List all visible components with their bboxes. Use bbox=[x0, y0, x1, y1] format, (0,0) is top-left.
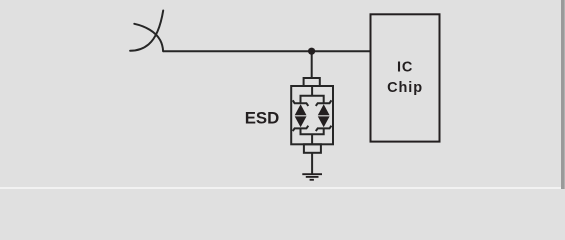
bottom page edge strip bbox=[0, 187, 561, 189]
wire: ESD device to ground bbox=[311, 153, 313, 174]
zener bar bottom of right TVS pair bbox=[316, 126, 332, 131]
ESD device top terminal pad bbox=[304, 78, 320, 86]
IC chip box bbox=[371, 14, 440, 141]
connector arc (pin curve into wire) bbox=[134, 24, 163, 51]
zener bar bottom of left TVS pair bbox=[293, 126, 309, 131]
diode D1a triangle (left pair, pointing up) bbox=[295, 104, 307, 115]
zener bar top of right TVS pair bbox=[316, 100, 332, 106]
ESD device bottom terminal pad bbox=[304, 144, 321, 153]
diode D2b triangle (right pair, pointing down) bbox=[318, 116, 330, 127]
right page border bbox=[561, 0, 564, 189]
center stub from inner bottom rail to box bottom bbox=[311, 134, 313, 144]
inner top rail bbox=[301, 96, 324, 103]
zener bar top of left TVS pair bbox=[293, 100, 309, 106]
svg-text:ESD: ESD bbox=[245, 108, 280, 127]
connector arc (cable symbol, tall curve) bbox=[130, 11, 163, 51]
diode D1b triangle (left pair, pointing down) bbox=[295, 116, 307, 127]
ground bar 3 bbox=[310, 179, 314, 181]
svg-text:Chip: Chip bbox=[387, 80, 423, 96]
junction node dot bbox=[308, 48, 315, 55]
wire: input net to IC chip bbox=[163, 50, 370, 52]
center stub from box top to inner top rail bbox=[311, 87, 313, 96]
diode D2a triangle (right pair, pointing up) bbox=[318, 104, 330, 115]
ground bar 1 bbox=[302, 173, 322, 175]
wire: junction down to ESD device bbox=[311, 51, 313, 77]
svg-text:IC: IC bbox=[397, 60, 413, 76]
inner bottom rail bbox=[301, 128, 324, 134]
ground bar 2 bbox=[306, 176, 319, 178]
ESD device outer box bbox=[291, 86, 333, 144]
